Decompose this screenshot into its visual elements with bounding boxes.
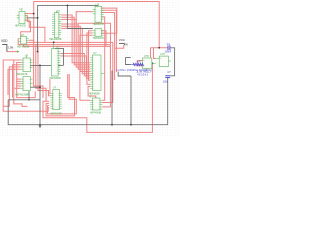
wire gray stair xyxy=(55,48,64,65)
pin U6a top xyxy=(26,55,28,58)
wire xyxy=(29,40,43,98)
wire gray from U6b xyxy=(30,86,40,88)
wire to C1 xyxy=(151,47,168,49)
ground arrow xyxy=(38,125,41,129)
junction xyxy=(130,124,132,126)
junction xyxy=(37,51,39,53)
wire xyxy=(89,31,93,81)
wire xyxy=(76,12,93,24)
IC U9 xyxy=(89,52,101,95)
gate U?D xyxy=(139,55,156,68)
capacitor C2 xyxy=(163,70,171,84)
wire xyxy=(15,87,21,89)
junction xyxy=(28,99,30,101)
junction xyxy=(39,65,41,67)
junction xyxy=(39,124,41,126)
svg-text:HEF40106B: HEF40106B xyxy=(49,38,62,41)
wire VDD feed xyxy=(7,51,17,53)
capacitor C1 xyxy=(165,42,172,54)
svg-text:U?C: U?C xyxy=(160,53,165,56)
svg-text:HEF4060B: HEF4060B xyxy=(50,77,61,80)
IC U8 xyxy=(51,87,62,116)
wire xyxy=(25,20,45,42)
junction xyxy=(67,5,69,7)
wire xyxy=(60,56,90,78)
VCC bar xyxy=(119,42,124,44)
svg-text:HEF4017B: HEF4017B xyxy=(93,23,104,26)
junction xyxy=(37,17,39,19)
wire xyxy=(60,54,90,76)
wire xyxy=(17,85,21,87)
wire xyxy=(8,69,21,95)
wire gray U6a to stair xyxy=(30,64,63,66)
IC U2 xyxy=(49,10,62,41)
pin G1 bottom xyxy=(146,69,148,72)
wire gray osc xyxy=(126,58,131,65)
IC U5 xyxy=(17,34,30,49)
wire xyxy=(48,74,77,114)
svg-text:HEF4017B: HEF4017B xyxy=(93,37,104,40)
svg-text:C?: C? xyxy=(167,70,171,74)
wire xyxy=(17,78,21,80)
wire xyxy=(25,13,34,15)
wire xyxy=(17,80,21,82)
wire U3-U4 wrap xyxy=(102,8,117,33)
wire xyxy=(102,17,105,40)
resistor R1 xyxy=(131,63,144,65)
pin U9 long xyxy=(101,72,105,74)
wire bus3 xyxy=(24,44,111,68)
wire xyxy=(3,67,21,106)
junction xyxy=(111,124,113,126)
wire to G2 pin xyxy=(154,48,156,59)
svg-text:HEF4017B: HEF4017B xyxy=(15,24,26,27)
wire gray drop3 xyxy=(130,76,132,125)
IC U10 xyxy=(89,95,102,114)
net connector arrow xyxy=(17,50,20,52)
wire xyxy=(80,35,93,100)
wire gray branch xyxy=(67,5,92,28)
wire gray ground bus xyxy=(8,78,168,125)
wire xyxy=(102,13,115,81)
wire bus1 xyxy=(21,16,113,103)
svg-text:4C20A1: 4C20A1 xyxy=(137,74,148,77)
wire gray osc2 xyxy=(118,72,131,77)
svg-text:U?D: U?D xyxy=(144,55,149,58)
gate U?C xyxy=(156,53,171,66)
svg-text:HEF4017B: HEF4017B xyxy=(51,112,62,115)
IC U6a xyxy=(16,54,32,75)
wire xyxy=(87,33,93,84)
IC U3 xyxy=(93,3,104,26)
svg-text:HEF4017B: HEF4017B xyxy=(16,73,27,76)
wire xyxy=(102,40,104,100)
svg-text:VDD: VDD xyxy=(1,39,8,43)
wire xyxy=(49,79,52,94)
wire xyxy=(17,63,36,98)
wire xyxy=(61,24,90,69)
wire xyxy=(46,74,74,116)
wire top net xyxy=(34,2,160,48)
wire left loop xyxy=(3,60,49,111)
wire xyxy=(170,48,174,76)
VCC stub xyxy=(123,43,125,45)
junction xyxy=(53,41,55,43)
IC U6b xyxy=(15,77,32,97)
wire gray rail xyxy=(8,99,40,101)
svg-text:HEF40106B: HEF40106B xyxy=(17,46,30,49)
wire xyxy=(61,17,90,65)
wire bottom loop xyxy=(43,63,152,132)
wire xyxy=(61,15,90,63)
wire VDD stub xyxy=(2,45,7,52)
wire xyxy=(102,31,107,47)
wire gray xyxy=(28,91,30,100)
wire xyxy=(38,46,51,95)
wire xyxy=(13,65,21,98)
wire xyxy=(61,19,90,67)
svg-text:HEF40106BP: HEF40106BP xyxy=(15,94,29,97)
junction xyxy=(39,86,41,88)
junction xyxy=(158,47,160,49)
wire xyxy=(33,2,35,43)
IC U4 xyxy=(93,29,104,40)
wire bus2 xyxy=(18,39,110,107)
wire xyxy=(78,23,110,44)
wire xyxy=(61,28,90,73)
svg-text:1.3M: 1.3M xyxy=(8,46,13,50)
junction xyxy=(152,62,154,64)
wire xyxy=(102,10,117,72)
wire xyxy=(17,83,21,85)
wire xyxy=(14,60,28,106)
wire gray vertical xyxy=(38,5,98,51)
junction xyxy=(33,13,35,15)
wire xyxy=(36,45,46,101)
svg-text:HEF4040B: HEF4040B xyxy=(90,111,101,114)
wire xyxy=(137,61,142,66)
wire VCC feed xyxy=(115,45,124,48)
svg-text:VCC: VCC xyxy=(119,38,126,42)
wire xyxy=(88,86,96,98)
wire gray drop xyxy=(39,65,41,124)
svg-text:470: 470 xyxy=(137,60,142,63)
IC U7 xyxy=(50,46,61,80)
wire gray from U1 xyxy=(27,17,38,19)
wire G1 top feed xyxy=(150,48,152,58)
pin U7 top xyxy=(53,42,55,48)
wire gray drop2 xyxy=(111,71,113,125)
wire gray osc lead xyxy=(126,57,131,59)
svg-text:100n: 100n xyxy=(163,81,169,84)
wire xyxy=(61,26,90,71)
svg-text:100nF: 100nF xyxy=(165,51,172,54)
IC U1 xyxy=(15,8,28,27)
